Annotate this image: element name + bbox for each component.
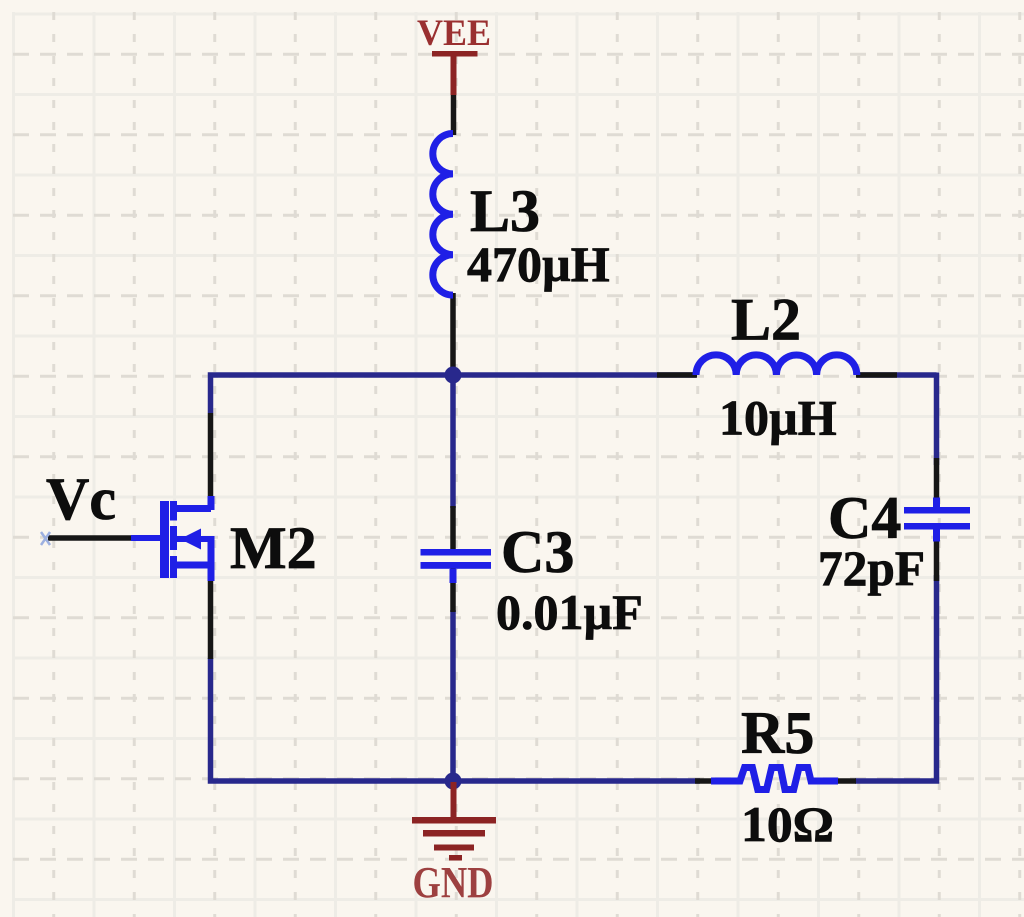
svg-text:10µH: 10µH [719, 390, 837, 446]
svg-text:72pF: 72pF [818, 540, 925, 596]
svg-text:VEE: VEE [417, 13, 491, 54]
svg-text:R5: R5 [741, 700, 814, 766]
svg-text:GND: GND [413, 858, 494, 907]
svg-text:Vc: Vc [46, 466, 116, 532]
svg-text:C3: C3 [501, 519, 574, 585]
svg-text:470µH: 470µH [467, 236, 610, 292]
svg-text:L3: L3 [470, 178, 540, 244]
svg-text:L2: L2 [731, 287, 801, 353]
svg-text:M2: M2 [230, 515, 317, 581]
svg-text:0.01µF: 0.01µF [496, 584, 643, 640]
svg-text:10Ω: 10Ω [741, 796, 834, 852]
